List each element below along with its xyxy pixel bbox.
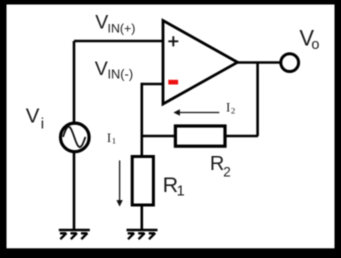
svg-text:i: i	[41, 116, 44, 133]
label Vo	[299, 25, 319, 53]
ground (R1)	[127, 230, 158, 239]
svg-text:1: 1	[177, 184, 185, 200]
wire R2 right to output node	[225, 135, 258, 138]
label R1	[163, 173, 185, 200]
svg-text:I: I	[107, 131, 111, 145]
wire R1 to ground	[141, 205, 144, 230]
label I2	[226, 101, 235, 116]
current arrow I2	[173, 109, 219, 115]
svg-text:V: V	[95, 58, 108, 80]
svg-text:V: V	[26, 105, 40, 128]
voltage source Vi	[61, 123, 90, 152]
resistor R1	[132, 157, 153, 206]
wire inverting input	[142, 83, 163, 86]
svg-text:IN(+): IN(+)	[108, 22, 136, 36]
label R2	[210, 153, 231, 180]
wire inverting node vertical	[141, 83, 144, 156]
wire node to R2 left	[142, 135, 176, 138]
resistor R2	[175, 126, 225, 146]
wire op-amp output	[237, 61, 281, 64]
wire Vi to VIN(+) corner	[73, 41, 76, 123]
svg-text:I: I	[226, 101, 230, 115]
svg-text:1: 1	[112, 135, 116, 145]
node VIN(-) label	[95, 58, 133, 82]
svg-text:o: o	[311, 37, 319, 53]
ground (source)	[59, 230, 90, 239]
svg-text:V: V	[95, 12, 108, 34]
svg-text:2: 2	[231, 106, 235, 116]
svg-text:2: 2	[223, 164, 231, 179]
wire feedback vertical	[256, 63, 259, 137]
label Vi	[26, 105, 44, 133]
svg-text:R: R	[210, 153, 224, 175]
output terminal Vo	[281, 54, 299, 72]
wire noninverting input	[74, 40, 163, 43]
label I1	[107, 131, 116, 146]
node VIN(+) label	[95, 12, 135, 36]
current arrow I1	[116, 160, 122, 206]
op-amp U1	[163, 21, 238, 105]
svg-text:IN(-): IN(-)	[108, 67, 134, 82]
wire Vi to ground	[73, 152, 76, 230]
